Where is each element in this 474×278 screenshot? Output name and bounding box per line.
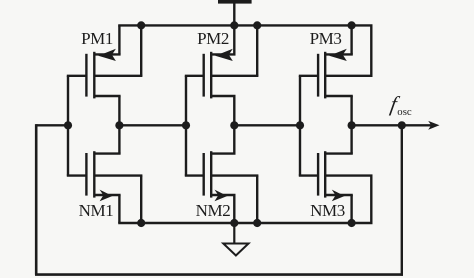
svg-text:PM2: PM2 (197, 29, 229, 48)
svg-text:PM1: PM1 (81, 29, 113, 48)
svg-text:osc: osc (397, 106, 412, 118)
wire stage2 output to stage3 input (node V2) (233, 124, 301, 126)
wire VDD stem (233, 3, 235, 25)
junction dot: PM3 source on VDD rail (348, 21, 356, 29)
junction dot: stage2 output node (230, 121, 238, 129)
wire gate tie PM3/NM3 (299, 76, 301, 176)
wire gate tie PM2/NM2 (185, 76, 187, 176)
wire stage1 output to stage2 input (node V1) (118, 124, 187, 126)
wire PM1 bulk drop from rail (140, 25, 142, 75)
junction dot: PM1 bulk on VDD rail (137, 21, 145, 29)
wire feedback left rise (35, 124, 38, 275)
ground symbol stem (233, 223, 235, 244)
wire feedback to stage1 input (node IN1 segment) (36, 124, 69, 126)
junction dot: stage1 gate node (64, 121, 72, 129)
transistor NM2 (NMOS) (185, 125, 259, 223)
ground symbol triangle (223, 244, 248, 256)
VDD supply bar (218, 0, 252, 4)
svg-text:NM2: NM2 (196, 201, 231, 220)
wire top VDD rail (118, 24, 372, 26)
transistor NM1 (NMOS) (67, 125, 143, 223)
junction dot: NM2 bulk on ground rail (253, 219, 261, 227)
wire PM2 bulk drop from rail (256, 25, 258, 75)
transistor PM1 (PMOS) (67, 49, 143, 126)
wire ground rail (118, 222, 372, 224)
junction dot: NM3 source on ground rail (348, 219, 356, 227)
junction dot: stage3 gate node (296, 121, 304, 129)
wire PM2 source drop from rail (233, 25, 235, 54)
junction dot: NM1 bulk on ground rail (137, 219, 145, 227)
junction dot: NM2 source / ground stem (230, 219, 238, 227)
wire PM3 bulk drop from rail (rail right end) (370, 25, 372, 75)
wire feedback right drop (401, 125, 403, 275)
svg-text:NM3: NM3 (310, 201, 345, 220)
wire PM3 source drop from rail (350, 25, 352, 54)
svg-text:PM3: PM3 (310, 29, 342, 48)
junction dot: feedback tap on fosc line (398, 121, 406, 129)
svg-text:NM1: NM1 (79, 201, 114, 220)
fosc output arrowhead (428, 121, 439, 130)
wire stage3 output to fosc (node V3) (350, 124, 433, 126)
junction dot: stage2 gate node (182, 121, 190, 129)
wire gate tie PM1/NM1 (67, 76, 69, 176)
junction dot: stage3 output node (348, 121, 356, 129)
transistor PM2 (PMOS) (185, 49, 259, 126)
wire feedback bottom run (35, 273, 403, 276)
wire PM1 source drop from rail (118, 25, 120, 54)
junction dot: PM2 bulk on VDD rail (253, 21, 261, 29)
junction dot: stage1 output node (115, 121, 123, 129)
transistor PM3 (PMOS) (299, 49, 373, 126)
junction dot: VDD stem / PM2 source on VDD rail (230, 21, 238, 29)
transistor NM3 (NMOS) (299, 125, 373, 223)
